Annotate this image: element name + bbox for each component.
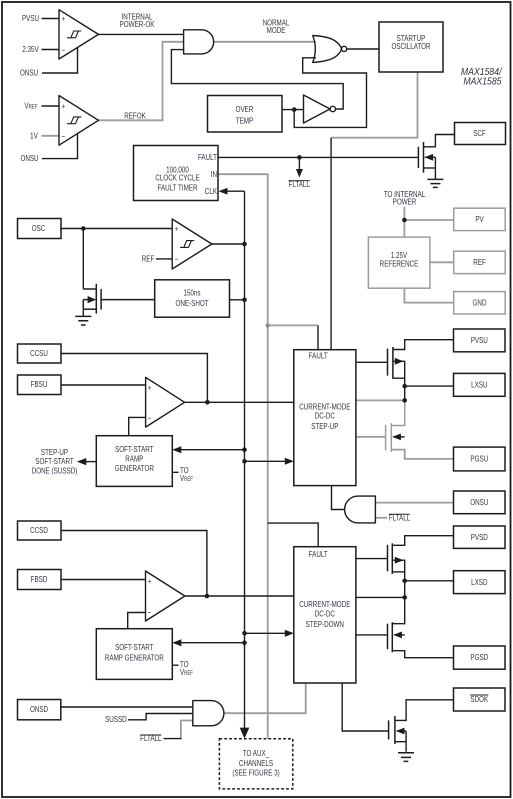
svg-text:STEP-UP: STEP-UP [311,421,338,431]
svg-text:RAMP GENERATOR: RAMP GENERATOR [105,653,164,663]
svg-text:FBSD: FBSD [31,574,48,584]
svg-text:POWER: POWER [393,197,417,207]
svg-text:REF: REF [142,254,155,264]
svg-text:POWER-OK: POWER-OK [120,19,155,29]
svg-text:REFOK: REFOK [124,111,146,121]
svg-text:SUSSD: SUSSD [105,714,127,724]
svg-text:ONSU: ONSU [20,68,38,78]
svg-text:GND: GND [473,297,487,307]
svg-text:IN: IN [211,169,217,179]
svg-text:2.35V: 2.35V [22,44,38,54]
svg-text:PVSU: PVSU [22,13,39,23]
svg-text:OSC: OSC [32,223,46,233]
svg-text:+: + [62,13,66,23]
svg-text:(SEE FIGURE 3): (SEE FIGURE 3) [232,767,280,777]
svg-text:SDOK: SDOK [470,694,488,704]
svg-text:SCF: SCF [473,128,486,138]
svg-text:DONE (SUSSD): DONE (SUSSD) [32,466,78,476]
svg-text:PV: PV [475,214,483,224]
svg-text:DC-DC: DC-DC [315,608,336,618]
svg-text:PGSD: PGSD [470,652,488,662]
svg-text:1V: 1V [30,130,38,140]
svg-text:FBSU: FBSU [31,379,48,389]
svg-text:ONSU: ONSU [20,153,38,163]
svg-text:CCSU: CCSU [30,348,48,358]
svg-text:FAULT: FAULT [309,350,328,360]
svg-text:TEMP: TEMP [236,115,253,125]
svg-text:+: + [62,101,66,111]
svg-text:REF: REF [473,257,486,267]
svg-text:FAULT: FAULT [198,152,217,162]
svg-text:ONE-SHOT: ONE-SHOT [175,298,208,308]
svg-text:−: − [148,608,152,618]
svg-text:OVER: OVER [236,104,254,114]
svg-text:LXSU: LXSU [471,380,487,390]
svg-text:PGSU: PGSU [470,454,488,464]
svg-text:MODE: MODE [267,25,286,35]
svg-text:REFERENCE: REFERENCE [380,258,419,268]
svg-text:+: + [148,383,152,393]
svg-text:MAX1585: MAX1585 [463,76,502,87]
svg-text:150ns: 150ns [183,288,200,298]
svg-text:OSCILLATOR: OSCILLATOR [391,41,431,51]
svg-text:LXSD: LXSD [471,577,488,587]
svg-text:TO AUX_: TO AUX_ [243,748,270,758]
svg-text:PVSD: PVSD [471,532,489,542]
svg-text:FAULT: FAULT [309,549,328,559]
svg-text:ONSU: ONSU [470,497,488,507]
svg-text:GENERATOR: GENERATOR [115,463,155,473]
svg-text:+: + [148,576,152,586]
svg-text:+: + [175,223,179,233]
svg-text:−: − [148,413,152,423]
svg-text:−: − [175,254,179,264]
svg-text:STEP-DOWN: STEP-DOWN [306,619,344,629]
svg-text:SOFT-START: SOFT-START [115,642,154,652]
svg-text:PVSU: PVSU [471,335,488,345]
svg-text:−: − [62,45,66,55]
svg-text:CCSD: CCSD [30,525,48,535]
svg-text:FAULT TIMER: FAULT TIMER [157,182,198,192]
svg-text:−: − [62,131,66,141]
svg-text:ONSD: ONSD [30,704,49,714]
svg-text:CLK: CLK [205,186,217,196]
svg-text:DC-DC: DC-DC [315,411,336,421]
